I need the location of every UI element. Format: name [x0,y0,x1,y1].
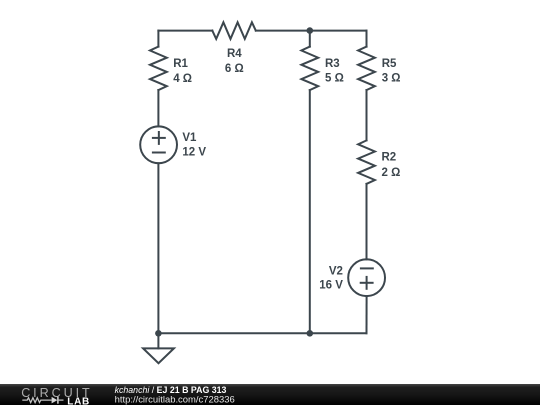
wire R5 to R2 [366,90,368,140]
wire R3 to bottom [309,90,311,333]
logo resistor squiggle [22,398,51,403]
svg-text:R2: R2 [382,152,397,164]
svg-text:4 Ω: 4 Ω [173,73,192,85]
svg-text:R3: R3 [325,58,340,70]
footer bar [0,384,540,405]
svg-text:R5: R5 [382,58,397,70]
node bottom middle junction [307,330,314,337]
svg-text:LAB: LAB [67,397,90,405]
svg-text:12 V: 12 V [182,147,206,159]
wire R2 to V2 [366,184,368,260]
node top junction [307,27,314,34]
svg-text:V2: V2 [329,265,343,277]
resistor R1 [150,47,192,91]
svg-text:2 Ω: 2 Ω [382,167,401,179]
wire V1 to bottom [157,163,159,333]
wire top right segment [310,30,367,32]
voltage source V2 [319,259,385,296]
wire left branch upper [157,31,159,47]
svg-text:V1: V1 [182,132,197,144]
wire R1 to V1 [157,90,159,126]
wire middle branch upper [309,31,311,47]
resistor R2 [358,140,400,184]
wire bottom right segment [310,332,367,334]
logo diode [52,397,58,404]
wire top middle segment [256,30,310,32]
resistor R4 [212,22,256,75]
svg-text:kchanchi / EJ 21 B PAG 313: kchanchi / EJ 21 B PAG 313 [115,385,227,395]
svg-text:16 V: 16 V [319,280,343,292]
wire V2 to bottom [366,296,368,333]
svg-text:5 Ω: 5 Ω [325,73,344,85]
CircuitLab logo [21,386,92,405]
ground [143,333,174,363]
node bottom left junction [155,330,162,337]
svg-text:3 Ω: 3 Ω [382,73,401,85]
wire bottom left segment [158,332,309,334]
svg-text:http://circuitlab.com/c728336: http://circuitlab.com/c728336 [115,394,235,405]
svg-text:6 Ω: 6 Ω [225,63,244,75]
resistor R5 [358,47,400,91]
svg-text:R1: R1 [173,58,188,70]
wire top-left horizontal segment [158,30,212,32]
resistor R3 [301,47,343,91]
wire right branch upper [366,31,368,47]
voltage source V1 [140,126,206,163]
svg-text:R4: R4 [227,48,242,60]
